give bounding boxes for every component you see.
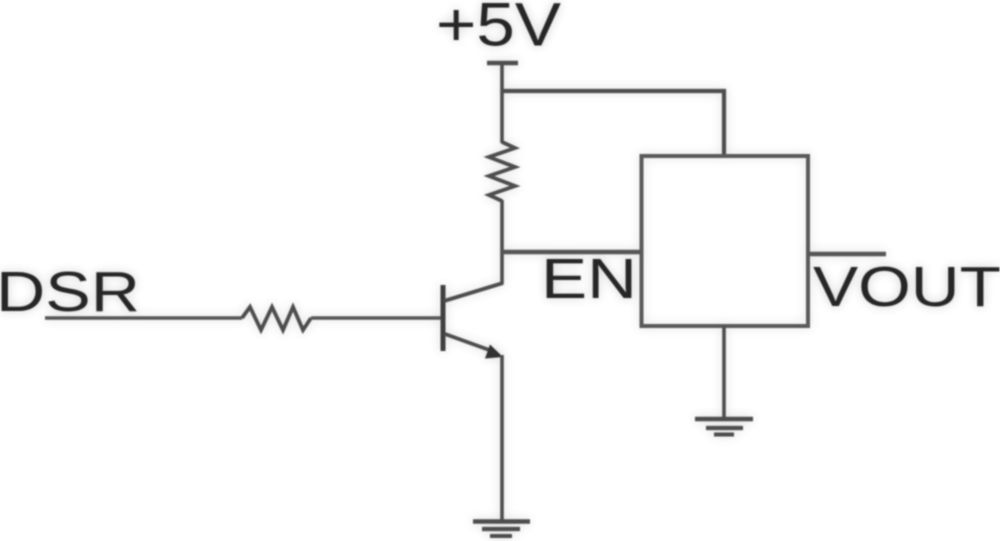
svg-text:+5V: +5V xyxy=(436,0,561,59)
svg-text:EN: EN xyxy=(541,247,637,311)
svg-text:DSR: DSR xyxy=(0,260,140,324)
svg-text:VOUT: VOUT xyxy=(813,255,1000,319)
